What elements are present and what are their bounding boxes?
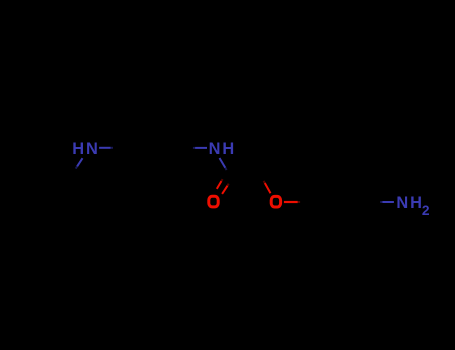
wire bond right ring to amine N (blue half) (380, 201, 382, 203)
wire bond N to central ring (blue half) (99, 147, 111, 149)
svg-text:2: 2 (422, 203, 430, 218)
svg-text:N: N (86, 140, 98, 158)
svg-text:H: H (222, 140, 234, 158)
atom label O (carbonyl oxygen, drawn as ring) (209, 196, 218, 207)
svg-text:H: H (410, 194, 422, 212)
wire bond CH2 to ether O (red half, diagonal) (264, 181, 265, 183)
svg-text:H: H (72, 140, 84, 158)
svg-text:N: N (209, 140, 221, 158)
atom label HN (anilino nitrogen) (72, 140, 98, 158)
bond C=O double bond (red halves) (217, 179, 229, 194)
atom label NH (amide nitrogen) (209, 140, 235, 158)
atom label O (ether oxygen, drawn as ring) (271, 196, 280, 207)
wire bond N to phenyl (blue half, diagonal) (77, 158, 82, 166)
wire bond ether O to right ring (red half) (284, 201, 298, 203)
svg-text:N: N (396, 194, 408, 212)
wire bond amide N to carbonyl C (blue half, diagonal) (220, 158, 226, 168)
atom label NH2 (amine) (396, 194, 430, 218)
wire bond central ring to amide N (blue half) (193, 147, 195, 149)
